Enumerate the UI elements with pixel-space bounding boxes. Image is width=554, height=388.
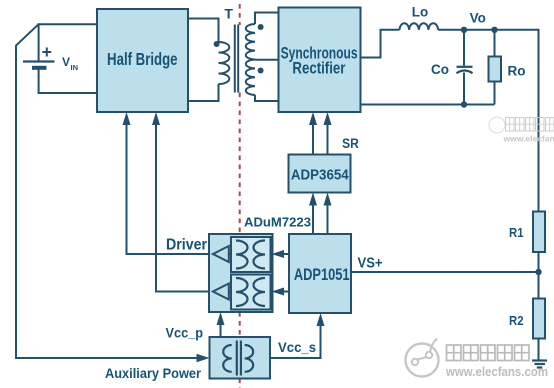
- svg-text:IN: IN: [71, 63, 79, 72]
- svg-text:Co: Co: [431, 62, 449, 77]
- svg-text:T: T: [224, 6, 233, 22]
- svg-text:Vcc_s: Vcc_s: [278, 339, 316, 355]
- svg-text:Vcc_p: Vcc_p: [166, 324, 204, 340]
- svg-text:ADP3654: ADP3654: [291, 167, 349, 184]
- svg-text:ADP1051: ADP1051: [294, 266, 350, 284]
- svg-text:ADuM7223: ADuM7223: [244, 215, 311, 230]
- svg-text:Vo: Vo: [470, 11, 486, 26]
- svg-text:www.elecfans.com: www.elecfans.com: [503, 134, 554, 144]
- svg-text:R2: R2: [509, 313, 524, 328]
- svg-text:Rectifier: Rectifier: [292, 60, 345, 78]
- svg-text:Half Bridge: Half Bridge: [107, 49, 178, 69]
- svg-text:www.elecfans.com: www.elecfans.com: [445, 364, 548, 379]
- svg-text:VS+: VS+: [358, 256, 383, 272]
- svg-text:Lo: Lo: [412, 4, 429, 19]
- svg-text:Driver: Driver: [166, 237, 207, 254]
- svg-text:SR: SR: [342, 136, 359, 151]
- svg-text:V: V: [62, 55, 70, 69]
- svg-text:Ro: Ro: [508, 63, 526, 78]
- svg-text:R1: R1: [509, 225, 524, 240]
- svg-text:Auxiliary Power: Auxiliary Power: [105, 365, 201, 381]
